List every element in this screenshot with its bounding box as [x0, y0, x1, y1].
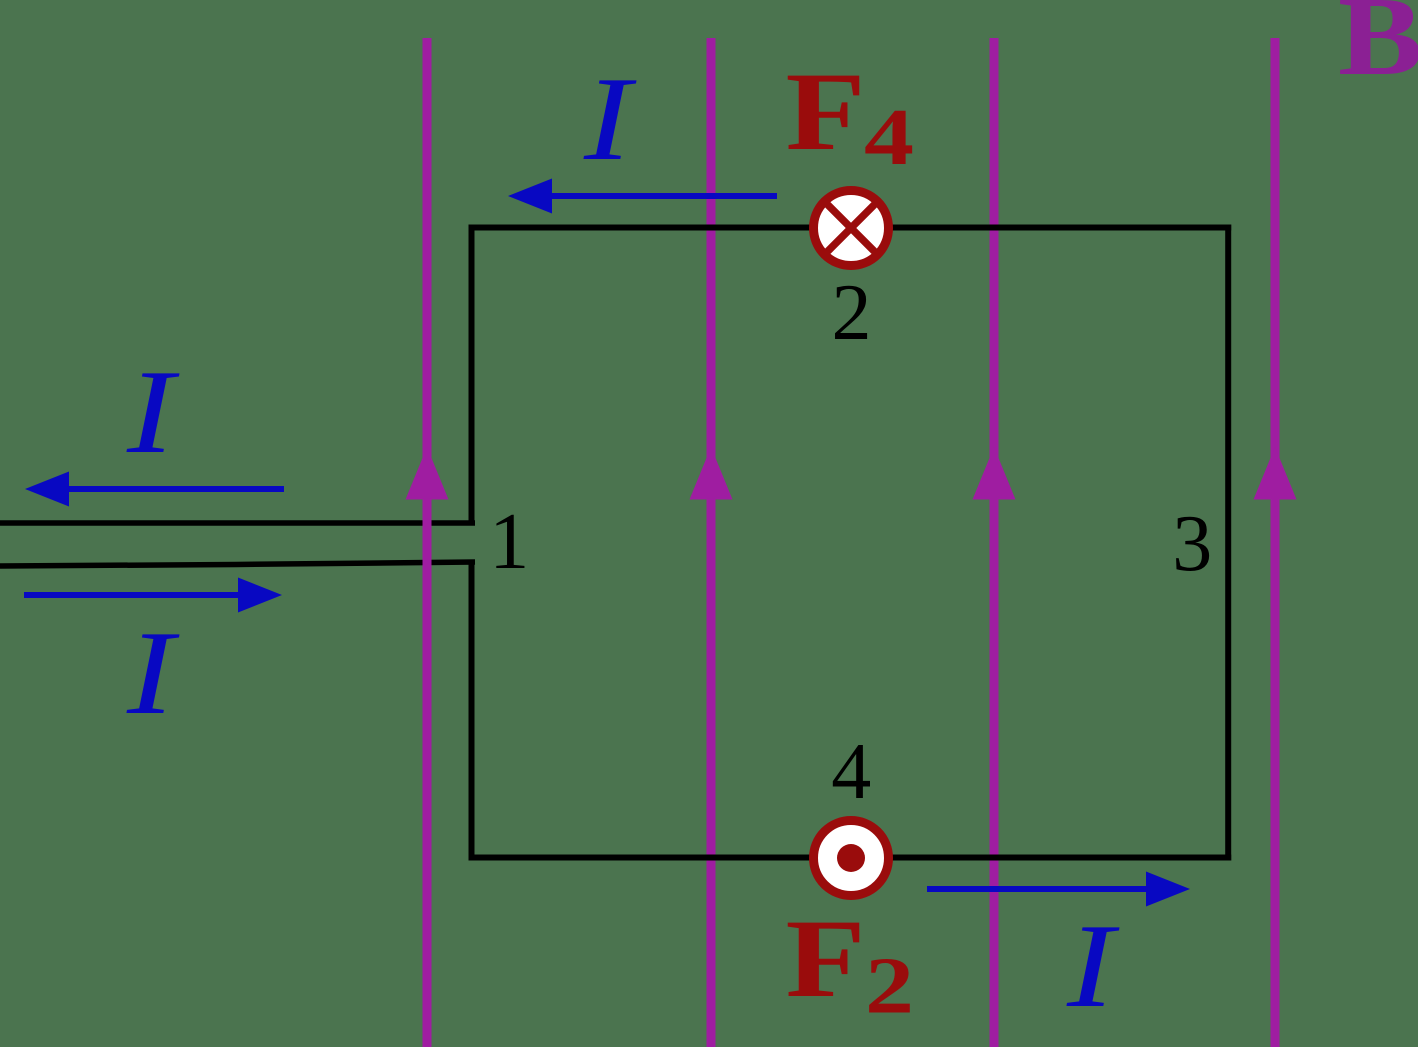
svg-text:2: 2	[865, 943, 914, 1031]
label F4	[786, 50, 915, 182]
svg-text:I: I	[126, 606, 180, 739]
svg-text:I: I	[583, 52, 637, 185]
lead wire lower	[0, 562, 475, 566]
field line B2	[690, 38, 733, 1047]
force symbol F4 cross circle	[814, 191, 889, 266]
svg-text:F: F	[786, 50, 866, 174]
current arrow I top	[508, 179, 777, 214]
svg-text:F: F	[786, 897, 866, 1021]
svg-text:I: I	[126, 345, 180, 478]
field line B3	[973, 38, 1016, 1047]
svg-text:3: 3	[1172, 500, 1212, 588]
svg-text:I: I	[1066, 899, 1120, 1032]
svg-text:1: 1	[489, 498, 529, 586]
svg-text:B: B	[1338, 0, 1418, 99]
wire loop right edge 3	[1225, 225, 1231, 861]
force symbol F2 dot circle	[814, 821, 889, 896]
wire loop bottom edge	[469, 855, 1232, 861]
wire loop left edge lower part	[469, 560, 475, 861]
current arrow I left-lower	[24, 578, 282, 613]
current arrow I left-upper	[25, 472, 284, 507]
field line B1	[406, 38, 449, 1047]
wire loop top edge	[469, 225, 1232, 231]
wire loop left edge upper part	[469, 225, 475, 526]
field line B4	[1254, 38, 1297, 1047]
current arrow I bottom-right	[927, 872, 1190, 907]
svg-text:4: 4	[831, 728, 871, 816]
svg-text:2: 2	[832, 269, 872, 357]
svg-text:4: 4	[864, 94, 914, 182]
lead wire upper	[0, 520, 475, 526]
label F2	[786, 897, 915, 1031]
